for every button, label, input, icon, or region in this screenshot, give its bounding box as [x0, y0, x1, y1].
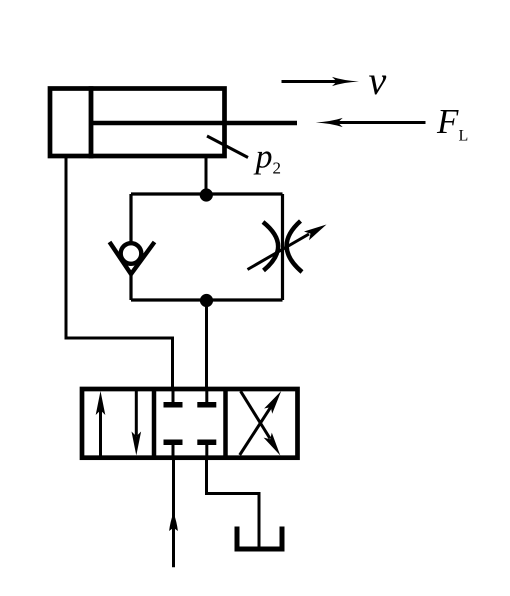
svg-text:v: v	[369, 58, 387, 103]
svg-text:L: L	[459, 128, 469, 145]
svg-text:2: 2	[273, 159, 282, 178]
svg-text:F: F	[436, 102, 459, 141]
svg-text:p: p	[254, 139, 273, 176]
